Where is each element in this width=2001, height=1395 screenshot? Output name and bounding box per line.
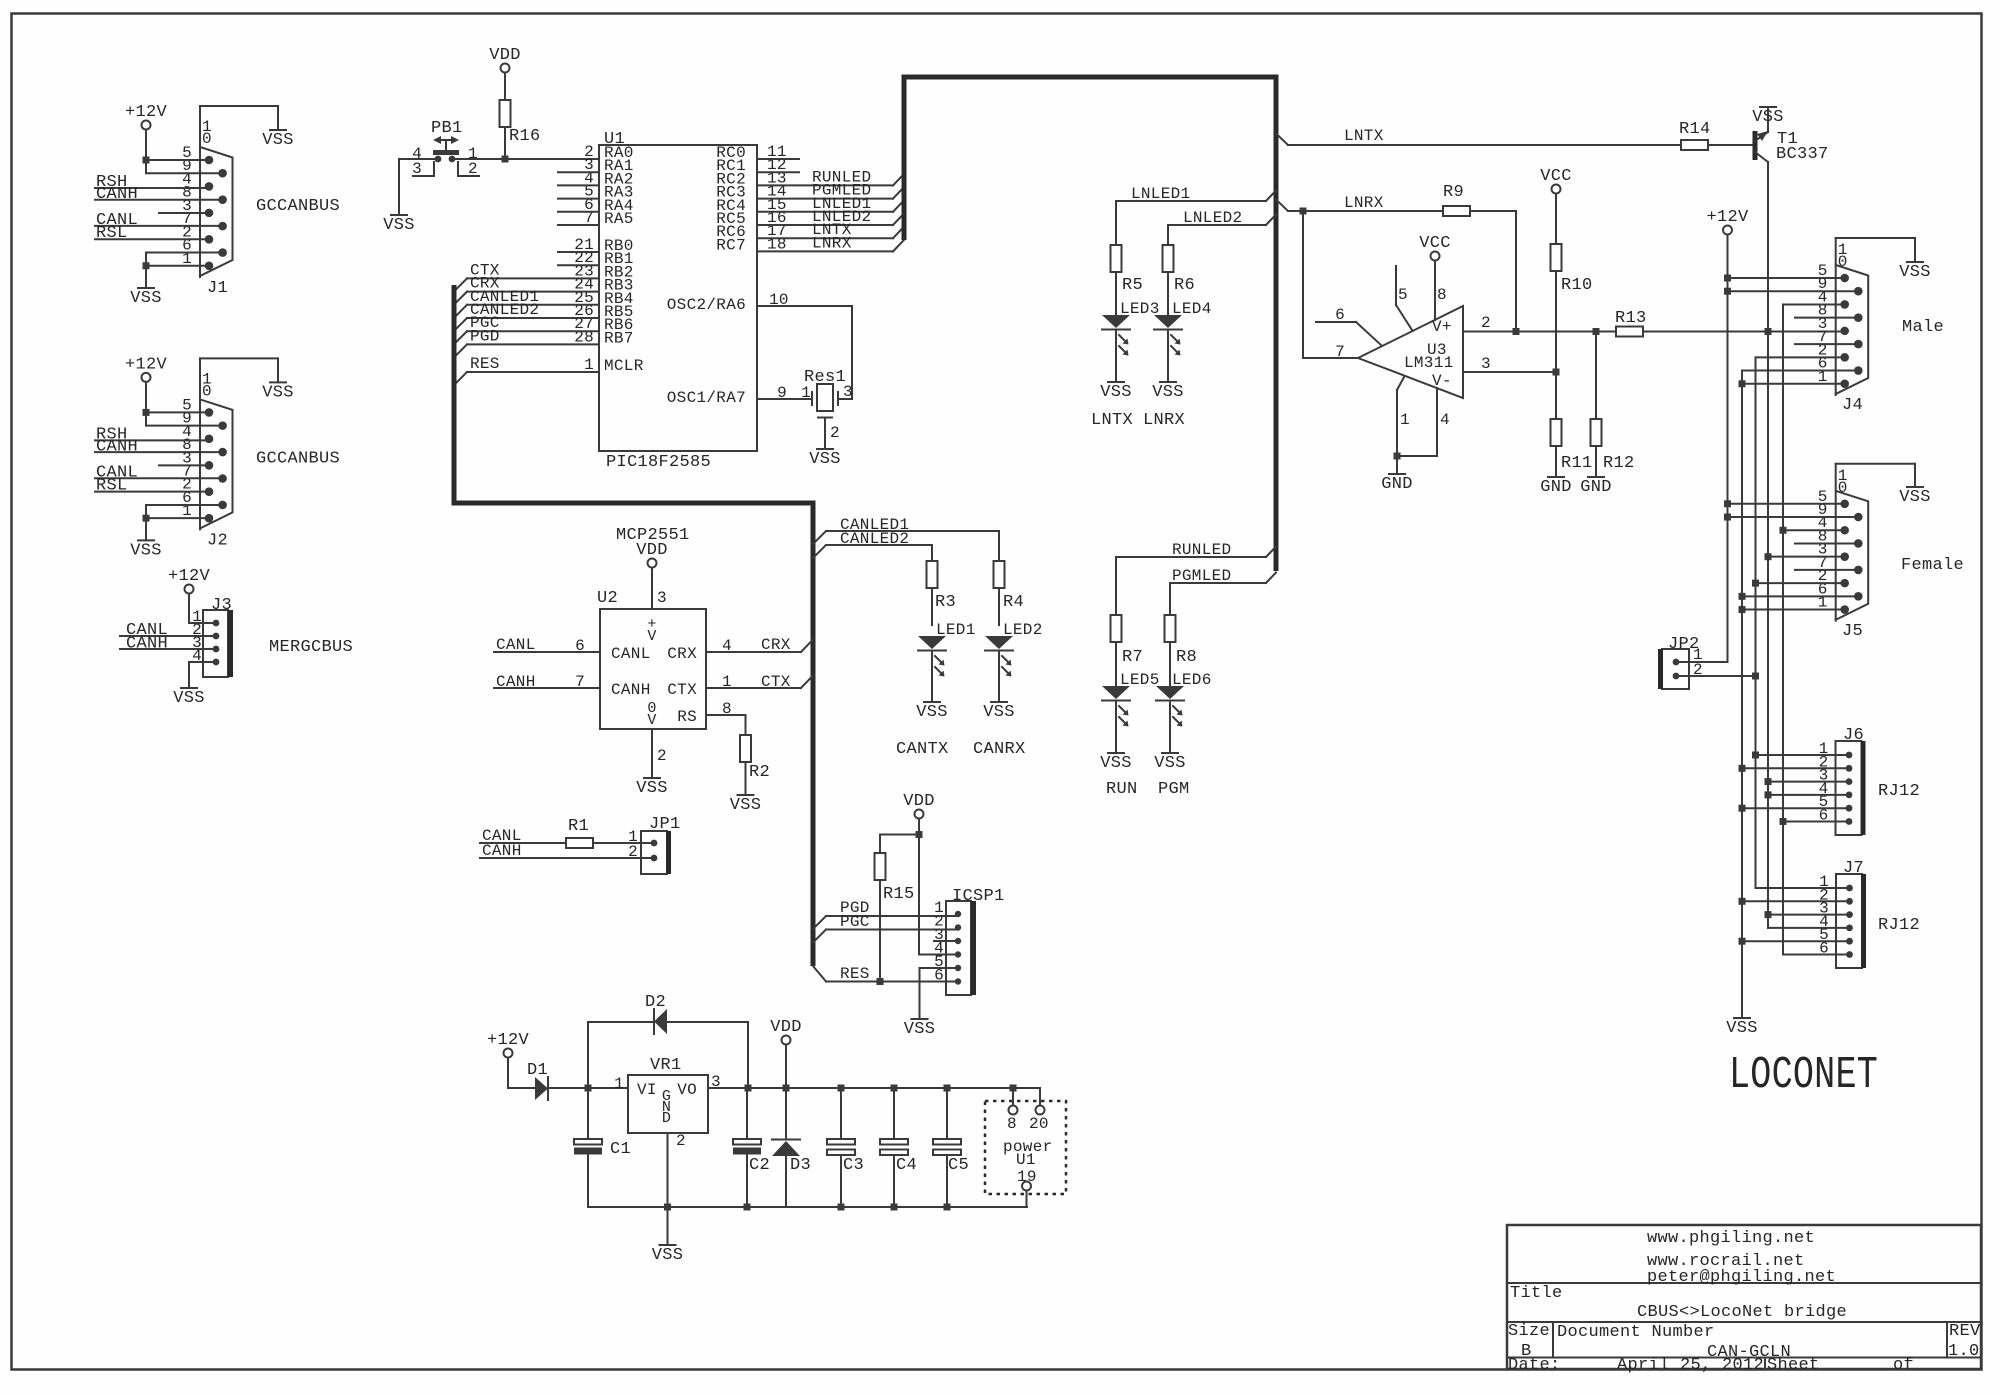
svg-text:CTX: CTX [667,681,697,699]
wire J7 pin6 [1783,954,1849,956]
svg-text:0: 0 [1838,479,1848,497]
svg-text:R3: R3 [935,593,956,612]
IC U1 PIC18F2585 [599,130,757,472]
IC U2 MCP2551 [597,526,706,729]
net CRX (U1 RB3) [454,275,599,305]
svg-text:VSS: VSS [983,703,1015,722]
svg-text:VSS: VSS [130,541,162,560]
wire J6 pin2 [1739,765,1850,772]
wire VDD rail to power pin 8 [1012,1088,1014,1106]
wire stub J5 pin7 [1795,569,1858,571]
wire J7 pin4 [1768,915,1849,928]
svg-text:J7: J7 [1843,859,1864,878]
svg-text:PB1: PB1 [431,119,463,138]
svg-text:peter@phgiling.net: peter@phgiling.net [1647,1268,1836,1287]
J2 shield wire to VSS [200,358,294,402]
VSS (T1 collector) [1760,106,1776,108]
power VDD (ICSP) [903,792,935,955]
svg-text:CANRX: CANRX [973,740,1026,759]
net CANLED1 wire [813,516,999,561]
wire power pin 19 to VSS rail [1026,1191,1028,1208]
svg-text:GCCANBUS: GCCANBUS [256,197,340,216]
svg-text:R9: R9 [1443,183,1464,202]
svg-text:J5: J5 [1842,622,1863,641]
wire VDD rail to power pin 20 [1039,1088,1041,1106]
net RUNLED wire [1116,541,1276,615]
net PGMLED wire [1170,567,1276,615]
svg-text:Size: Size [1508,1322,1550,1341]
U3 pin 5 stub [1396,266,1412,330]
svg-text:RUN: RUN [1106,780,1138,799]
wire PB1/R16 to U1 RA0 [452,156,599,163]
svg-text:LOCONET: LOCONET [1729,1050,1878,1101]
title block [1507,1225,1981,1369]
svg-text:20: 20 [1029,1115,1049,1133]
net RES (ICSP1 pin 6) [813,965,958,985]
PB1 open stubs pins 3,2 [413,162,479,176]
resistor R10 [1551,244,1593,419]
resistor R14 [1679,120,1755,150]
U2 RS pin 8 + resistor R2 [706,700,770,815]
resistor R16 [500,100,541,159]
svg-text:D2: D2 [645,993,666,1012]
svg-text:VI: VI [637,1081,657,1099]
wire J6 pin1 [1752,752,1849,759]
svg-text:LNRX: LNRX [1344,194,1384,212]
wire stub ICSP1 pin 3 [934,940,958,942]
svg-text:VSS: VSS [916,703,948,722]
U3 pin 7 wire (from LNRX) [1303,211,1358,361]
svg-text:of: of [1893,1356,1914,1375]
net CTX (U2 pin 1) [706,673,813,691]
net RSL (J2 pin 2) [95,476,209,495]
svg-text:VSS: VSS [173,689,205,708]
svg-text:RA5: RA5 [604,210,634,228]
resistor R7 [1111,615,1144,686]
connector J3 MERGCBUS [192,596,232,677]
svg-text:D: D [662,1110,671,1127]
U2 V+ label [647,616,656,645]
svg-text:VSS: VSS [262,383,294,402]
wire +12V to J2 pins 5,9 [143,409,223,426]
resistor R3 [927,561,957,625]
svg-text:CRX: CRX [667,645,697,663]
wire J7 pin5 [1739,938,1850,945]
net CANL (U2 pin 6) [494,636,600,655]
svg-text:C3: C3 [843,1156,864,1175]
svg-text:CANTX: CANTX [896,740,949,759]
svg-text:REV: REV [1949,1322,1981,1341]
svg-text:R13: R13 [1615,309,1647,328]
U2 VSS pin 2 [636,729,668,798]
svg-text:1: 1 [1400,411,1410,429]
svg-text:3: 3 [657,589,667,607]
svg-text:VSS: VSS [809,450,841,469]
svg-text:8: 8 [1007,1115,1017,1133]
wire J4 pin4 [1783,304,1845,953]
net CANLED2 (U1 RB5) [454,301,599,331]
net PGD (ICSP1 pin 1) [813,899,958,929]
wire J6 pin4 [1765,791,1850,798]
svg-text:+12V: +12V [168,567,211,586]
power +12V (LocoNet rail) [1706,208,1749,662]
svg-text:April 25, 2012: April 25, 2012 [1617,1356,1764,1375]
svg-text:0: 0 [202,382,212,400]
svg-text:VSS: VSS [130,289,162,308]
bus (right, LocoNet nets) [904,77,1276,571]
wire J5 pin2 [1752,580,1845,587]
svg-text:R11: R11 [1561,454,1593,473]
svg-text:C1: C1 [610,1140,631,1159]
net PGMLED (U1 RC3) [757,182,904,200]
net CANH (J1 pin 8) [95,185,223,204]
diode D3 [772,1088,811,1207]
net CANL (J2 pin 7) [95,463,223,482]
power VDD (R16) [489,46,521,100]
svg-text:VSS: VSS [1154,754,1186,773]
svg-text:4: 4 [1440,411,1450,429]
net CANH (J2 pin 8) [95,437,223,456]
resistor R9 [1443,183,1516,332]
LED4 [1152,300,1211,402]
connector J2 GCCANBUS (DB9) [182,358,232,550]
svg-text:OSC1/RA7: OSC1/RA7 [667,389,746,407]
svg-text:J3: J3 [211,596,232,615]
power U1 block (dotted) [985,1101,1066,1194]
wire J3 pin 4 to VSS [173,662,216,708]
svg-text:VSS: VSS [1899,488,1931,507]
connector JP1 [628,815,680,874]
wire J4 pin6 [1742,371,1858,1018]
svg-text:CANL: CANL [611,645,651,663]
svg-text:RES: RES [470,355,500,373]
net PGC (U1 RB6) [454,314,599,344]
net CANLED1 (U1 RB4) [454,288,599,318]
resistor R15 [875,831,923,982]
wire J5 pin6 [1739,593,1859,600]
resistor R1 [566,817,654,848]
wire J5 pin1 [1739,606,1845,613]
net PGC (ICSP1 pin 2) [813,913,958,943]
net CANH (JP1) [480,842,654,860]
capacitor C3 [827,1088,864,1207]
U1 right pin numbers [767,143,787,253]
U3 pins 1,4 to GND [1381,377,1450,494]
wire J4 pin1 [1739,380,1845,387]
svg-text:PGC: PGC [840,913,870,931]
svg-text:+12V: +12V [125,103,168,122]
svg-text:MERGCBUS: MERGCBUS [269,638,353,657]
wire PB1 pin4 to VSS [383,159,434,235]
svg-text:RS: RS [677,708,697,726]
svg-text:1.0: 1.0 [1948,1342,1980,1361]
wire ICSP1 pin 5 to VSS [904,968,958,1039]
svg-text:2: 2 [657,747,667,765]
J5 shield wire to VSS [1836,464,1931,507]
wire J2 pins 6,1 to VSS [130,505,222,560]
wire +12V to J4 pin5 [1724,275,1845,282]
svg-text:VSS: VSS [383,216,415,235]
connector J1 GCCANBUS (DB9) [182,106,232,298]
svg-text:ICSP1: ICSP1 [952,887,1005,906]
net CANL (J3 pin 2) [120,621,216,640]
svg-text:6: 6 [575,637,585,655]
svg-text:R1: R1 [568,817,589,836]
svg-text:GND: GND [1580,478,1612,497]
wire J4 pin2 [1756,357,1845,887]
net PGD (U1 RB7) [454,327,599,357]
svg-text:C4: C4 [896,1156,917,1175]
svg-text:Female: Female [1901,556,1964,575]
svg-text:8: 8 [1437,286,1447,304]
svg-text:CBUS<>LocoNet bridge: CBUS<>LocoNet bridge [1637,1303,1847,1322]
svg-text:RC7: RC7 [716,236,746,254]
wire J7 pin1 [1756,887,1850,889]
svg-text:CANH: CANH [96,185,138,204]
VSS rail (bottom) [588,1204,1027,1211]
net CTX (U1 RB2) [454,261,599,291]
capacitor C2 [733,1088,770,1207]
wire J5 pin4 [1780,527,1845,534]
U1 right pin names [716,144,746,254]
svg-text:R7: R7 [1122,648,1143,667]
wire +12V to J1 pins 5,9 [143,157,223,174]
net CANH (J3 pin 3) [120,635,216,654]
svg-text:VDD: VDD [489,46,521,65]
svg-text:J1: J1 [207,279,228,298]
svg-text:VO: VO [677,1081,697,1099]
bus (left, U1 RB/ICSP) [454,285,813,966]
svg-text:RJ12: RJ12 [1878,782,1920,801]
U1 left open stubs RA1-RA5, RB0, RB1 [558,172,599,265]
svg-text:R16: R16 [509,127,541,146]
svg-text:LM311: LM311 [1404,354,1454,372]
op-amp U3 LM311 [1358,306,1463,398]
svg-text:OSC2/RA6: OSC2/RA6 [667,296,746,314]
U2 V0 label [647,700,656,729]
resistor R5 [1111,245,1144,315]
J1 shield wire to VSS [200,106,294,150]
power VCC (R10) [1540,167,1572,244]
svg-text:0: 0 [202,130,212,148]
net LNLED1 (U1 RC4) [757,195,904,213]
svg-text:LNRX: LNRX [1143,411,1185,430]
power VDD (U2 pin 3) [636,541,668,609]
resistor R4 [994,561,1025,625]
svg-text:RES: RES [840,965,870,983]
svg-text:0: 0 [1838,253,1848,271]
svg-text:R15: R15 [883,885,915,904]
svg-text:VSS: VSS [1899,263,1931,282]
net LNLED1 wire [1116,185,1276,245]
net CANL (J1 pin 7) [95,211,223,230]
svg-text:5: 5 [1398,286,1408,304]
wire JP2 pin2 [1676,673,1759,680]
svg-text:VR1: VR1 [650,1056,682,1075]
svg-text:V-: V- [1432,372,1452,390]
U1 RC0, RC1 open stubs [757,159,799,172]
wire J7 pin2 [1739,898,1850,905]
svg-text:2: 2 [676,1132,686,1150]
svg-text:R8: R8 [1176,648,1197,667]
svg-text:V: V [647,712,656,729]
svg-text:U2: U2 [597,589,618,608]
svg-text:CANH: CANH [96,437,138,456]
svg-text:V: V [647,628,656,645]
net RES (U1 MCLR) [454,355,599,385]
svg-text:J2: J2 [207,531,228,550]
net CANLED2 wire [813,530,932,561]
wire stub J4 pin7 [1795,343,1858,345]
resistor R11 [1540,419,1592,497]
svg-text:C5: C5 [948,1156,969,1175]
svg-text:CANH: CANH [126,635,168,654]
wire stub J1 pin 3 [159,212,209,214]
U1 OSC1/RA7 pin 9 [667,384,812,407]
net RUNLED (U1 RC2) [757,168,904,186]
net RSL (J1 pin 2) [95,224,209,243]
svg-text:VSS: VSS [1100,754,1132,773]
svg-text:7: 7 [575,673,585,691]
svg-text:3: 3 [843,383,853,401]
svg-text:VSS: VSS [730,796,762,815]
LED6 [1154,671,1211,773]
LED3 [1100,300,1159,402]
connector ICSP1 [934,887,1004,995]
wire J1 pins 6,1 to VSS [130,253,222,308]
svg-text:U1: U1 [1016,1151,1036,1169]
U3 pin 2 output wire [1463,314,1616,335]
svg-text:Title: Title [1510,1284,1563,1303]
connector J5 (DB9 Female) [1818,464,1868,641]
wire VR1 GND pin 2 to VSS [652,1133,684,1265]
wire stub J2 pin 3 [159,464,209,466]
net LNTX wire [1276,127,1681,145]
svg-text:2: 2 [628,843,638,861]
J4 shield wire to VSS [1836,238,1931,282]
wire VDD to ICSP1 pin 4 [919,954,958,956]
transistor T1 BC337 [1755,107,1829,332]
svg-text:Document Number: Document Number [1557,1323,1715,1342]
svg-text:VDD: VDD [903,792,935,811]
svg-text:www.phgiling.net: www.phgiling.net [1647,1229,1815,1248]
svg-text:R4: R4 [1003,593,1024,612]
connector JP2 [1661,635,1703,689]
svg-text:2: 2 [1481,314,1491,332]
svg-text:RJ12: RJ12 [1878,916,1920,935]
U1 left pin names [604,144,644,375]
wire +12V to J4 pin9 [1724,288,1858,295]
resonator Res1 [801,368,853,469]
power +12V (J3) [168,567,211,623]
svg-text:+12V: +12V [1706,208,1749,227]
svg-text:J4: J4 [1842,396,1863,415]
PB1 pin labels [412,145,478,178]
svg-text:GND: GND [1540,478,1572,497]
svg-text:D1: D1 [527,1061,548,1080]
diode D2 [588,993,748,1088]
svg-text:VCC: VCC [1419,234,1451,253]
power +12V (J1) [125,103,168,160]
net RSH (J1 pin 4) [95,173,209,192]
svg-text:VSS: VSS [636,779,668,798]
svg-text:Date:: Date: [1508,1356,1561,1375]
svg-text:VSS: VSS [904,1020,936,1039]
svg-text:LNTX: LNTX [1344,127,1384,145]
power +12V (J2) [125,355,168,412]
svg-text:+12V: +12V [487,1031,530,1050]
svg-text:3: 3 [1481,355,1491,373]
U1 OSC2/RA6 pin 10 [667,291,852,399]
VSS (harness bottom) [1734,1017,1750,1019]
LED2 [983,621,1042,722]
svg-text:2: 2 [830,424,840,442]
svg-text:PGM: PGM [1158,780,1190,799]
LED5 [1100,671,1159,773]
wire J6 pin5 [1739,805,1850,812]
VDD rail (VR1 output) [708,1085,1040,1092]
wire +12V to J3 pin 1 [189,622,216,624]
wire J6 pin3 [1765,778,1850,785]
wire J7 pin3 [1765,911,1850,918]
power VDD (supply) [770,1018,802,1088]
svg-text:VSS: VSS [1152,383,1184,402]
svg-text:VDD: VDD [636,541,668,560]
svg-text:BC337: BC337 [1776,145,1829,164]
svg-text:MCLR: MCLR [604,357,644,375]
svg-text:1: 1 [614,1075,624,1093]
regulator VR1 [614,1056,721,1150]
svg-text:RB7: RB7 [604,329,634,347]
wire JP2 pin1 to +12V rail [1676,661,1728,663]
svg-text:R10: R10 [1561,276,1593,295]
svg-text:GND: GND [1381,475,1413,494]
pushbutton PB1 [431,119,463,162]
resistor R13 [1615,309,1844,914]
U3 pin 6 stub [1316,306,1381,345]
power VCC (U3 pin 8) [1419,234,1451,320]
net RSH (J2 pin 4) [95,425,209,444]
svg-text:D3: D3 [790,1156,811,1175]
capacitor C1 [574,1088,631,1207]
net LNLED2 (U1 RC5) [757,208,904,226]
wire +12V to J5 pin9 [1724,514,1858,521]
resistor R8 [1165,615,1198,686]
net LNTX (U1 RC6) [757,221,904,239]
svg-text:C2: C2 [749,1156,770,1175]
U3 pin 3 wire [1463,355,1560,376]
svg-text:PIC18F2585: PIC18F2585 [606,453,711,472]
U2 inside pin names [611,645,697,726]
connector J6 RJ12 [1819,726,1864,835]
resistor R6 [1163,245,1196,315]
wire stub J5 pin8 [1795,542,1858,544]
svg-text:VSS: VSS [652,1246,684,1265]
svg-text:VSS: VSS [1100,383,1132,402]
net LNRX wire [1276,194,1443,215]
net LNLED2 wire [1168,209,1276,245]
net CANL (JP1) [480,827,566,845]
svg-text:CANH: CANH [611,681,651,699]
svg-text:VSS: VSS [262,131,294,150]
LED1 [916,621,975,722]
diode D1 [527,1061,628,1100]
svg-text:VDD: VDD [770,1018,802,1037]
svg-text:Sheet: Sheet [1767,1356,1820,1375]
capacitor C4 [880,1088,917,1207]
wire stub J4 pin8 [1795,317,1858,319]
svg-text:R2: R2 [749,763,770,782]
